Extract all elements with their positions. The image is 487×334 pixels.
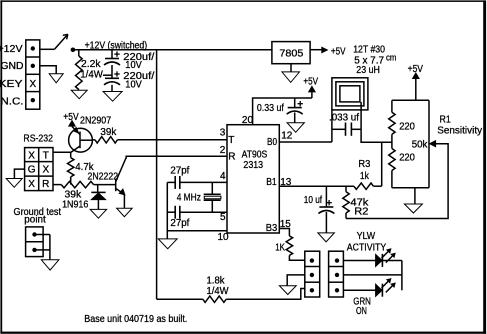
svg-text:23 uH: 23 uH [356,65,380,76]
wire J2 pin2 to ground [287,275,305,286]
label 50k [412,140,429,151]
ground (J2 pin2) [279,286,296,295]
pin label B3 [266,223,278,234]
transistor Q2 2N2222 [116,158,127,195]
svg-text:B0: B0 [267,137,277,148]
svg-text:10: 10 [218,232,230,243]
label 27pf upper [170,166,189,177]
resistor 2.2k [76,56,83,90]
label KEY [0,79,23,90]
resistor 1K (pin15) [286,236,292,256]
svg-text:X: X [28,150,35,161]
P1 pin 3 KEY mark [29,79,36,90]
+5V arrow (Q1 emitter) [69,121,75,127]
svg-text:2: 2 [220,145,226,156]
label +5V (VCC net) [303,77,318,88]
wire U1 pin12 B0 line [279,141,332,143]
pin label B0 [267,137,277,148]
capacitor 220uf upper [104,51,120,65]
ground (RS-232 G) [6,179,22,188]
pin number 12 [281,131,293,142]
J3 pin 3 dot [335,288,339,292]
wire +12V drop to bottom rail [156,50,158,300]
label +5V (Q1) [63,112,79,123]
svg-text:7805: 7805 [279,49,303,60]
caption Base unit 040719 as built. [84,314,187,325]
ground (D1) [90,209,107,218]
label 1N916 [62,200,89,211]
label AT90S [242,149,268,160]
svg-text:0.33 uf: 0.33 uf [257,103,284,114]
pin number 10 [218,232,230,243]
label R2 [354,207,369,218]
label 220 lower [399,153,415,164]
+5V arrow (VCC net) [309,86,315,98]
label 10V upper [125,60,142,71]
RS-232 cell X [28,150,35,161]
wire xtal rail [166,182,168,239]
label cm [386,53,396,63]
pin number 13 [280,177,292,188]
svg-text:+5V: +5V [408,64,424,75]
label 7805 [279,49,303,60]
svg-text:27pf: 27pf [170,218,189,229]
wire U1 pin10 to ground rail [167,230,227,232]
label 4 MHz [177,193,201,204]
wire Q2 emitter to ground [123,195,125,209]
RS-232 cell X [42,164,49,175]
label +5V (R1) [408,64,424,75]
label R3 [358,159,370,170]
wire antenna right lead [360,102,362,129]
LED D3 green [376,284,383,297]
wire LED rail [401,261,403,291]
J2 pin 1 dot [310,258,314,262]
wire 7805 output arrow [310,47,327,52]
wire C 220uf to ground [111,85,113,92]
capacitor .033uf [332,123,361,136]
pot wiper arrow [430,141,436,147]
label 1k (R3) [360,171,370,182]
svg-text:B3: B3 [266,223,278,234]
pin number 4 [220,171,226,182]
svg-text:KEY: KEY [0,79,23,90]
J3 pin 2 dot [335,273,339,277]
svg-text:+5V: +5V [303,77,318,88]
capacitor 10uf [318,186,334,233]
RS-232 cell T [43,150,49,161]
wire VCC to pin 20 [253,98,312,125]
pin number 5 [220,212,226,223]
pin number 20 [242,115,254,126]
svg-text:1N916: 1N916 [62,200,89,211]
label 220 upper [399,122,415,133]
inductor L1 loop antenna [332,78,368,110]
label .033 uf [329,112,359,123]
ground (10uf) [318,233,335,242]
junction dot +12V switched node [71,48,76,53]
wire between 220uf caps [111,65,113,78]
wire test pins to ground [35,235,50,260]
label 2313 [243,160,263,171]
J2 pin 3 dot [310,288,314,292]
wire RS-232 T to node [53,151,71,153]
label Sensitivity [437,126,482,137]
svg-text:12T #30: 12T #30 [353,45,385,56]
wire U1 pin13 B1 line [279,185,354,187]
svg-text:X: X [29,79,36,90]
svg-text:R: R [228,151,235,162]
connector J2 (3 pin) [305,251,320,297]
svg-text:27pf: 27pf [170,166,189,177]
wire R 2.2k to ground [78,90,80,91]
label ACTIVITY [347,242,387,253]
ground (0.33uf) [287,123,304,133]
label 2N2222 [88,172,119,183]
ground (P1 GND) [49,74,63,83]
pin label R [228,151,235,162]
J2 pin 2 dot [310,273,314,277]
svg-text:R: R [42,179,49,190]
label 220uf/ upper [123,52,154,63]
wire 1K to connector J2 [289,255,304,260]
label 47k (R2) [350,197,369,208]
label 220uf/ lower [123,71,154,82]
label +5V at 7805 output [331,46,346,57]
resistor 4.7k [68,152,74,184]
diode D1 1N916 [91,185,105,210]
capacitor 220uf lower [104,71,120,85]
svg-text:3: 3 [220,128,226,139]
label 2.2k [81,59,102,70]
label 39k (Q1 base) [100,127,117,138]
svg-text:N.C.: N.C. [1,96,24,107]
wire antenna left lead [331,110,333,142]
label 12T #30 [353,45,385,56]
label +12V [0,44,23,55]
svg-text:G: G [28,164,36,175]
LED D3 light arrows [382,279,396,293]
svg-text:12: 12 [281,131,293,142]
pin number 2 [220,145,226,156]
wire divider left rail upper [391,100,393,112]
svg-text:39k: 39k [100,127,117,138]
wire bottom rail right segment [226,289,305,300]
label 1K [275,242,285,253]
svg-text:1K: 1K [275,242,285,253]
svg-text:Sensitivity: Sensitivity [437,126,482,137]
svg-text:5: 5 [220,212,226,223]
resistor 39k (Q1 base) [95,137,117,143]
wire P1 GND to ground [40,66,56,74]
wire R39k to U1 pin3 [117,139,227,141]
wire R3 to tank node [373,185,381,187]
svg-text:B1: B1 [266,177,277,188]
ground (220uf caps) [103,92,122,102]
wire stub left of caps [103,74,112,76]
regulator U2 7805 box [272,42,310,64]
svg-text:Base unit 040719 as built.: Base unit 040719 as built. [84,314,187,325]
wire 7805 to ground [290,64,292,72]
wire J3 pin2 to rail [343,274,402,276]
potentiometer R1 50k track [428,100,430,188]
svg-text:ON: ON [356,306,367,317]
wire divider bottom [392,187,429,189]
transistor Q1 2N2907 [69,126,93,152]
resistor 39k (Q2 base) [61,181,93,187]
P1 pin 1 contact dot [31,46,35,50]
capacitor 27pf lower [167,206,227,219]
wire R2 to wiper rail [346,144,448,219]
resistor 220 upper [389,112,395,134]
LED D2 yellow [376,254,383,267]
label GRN [353,297,371,308]
resistor 1.8k [203,296,226,302]
ground test pin 2 dot [32,248,36,252]
P1 pin 4 contact dot [31,98,35,102]
label YLW [357,231,376,242]
pin label T [228,135,234,146]
wire tank node down to R3 [381,142,383,186]
label 5 x 7.7 [354,56,384,67]
wire rail to R 2.2k [78,50,80,56]
svg-text:ACTIVITY: ACTIVITY [347,242,387,253]
label point [24,215,46,226]
svg-text:X: X [42,164,49,175]
crystal Y1 4MHz [204,182,221,212]
connector J3 (3 pin) [329,251,344,297]
svg-text:220: 220 [399,122,415,133]
svg-text:4 MHz: 4 MHz [177,193,201,204]
svg-text:GND: GND [1,61,24,72]
ground (test point) [41,260,59,270]
svg-text:YLW: YLW [357,231,376,242]
svg-text:AT90S: AT90S [242,149,268,160]
svg-text:1k: 1k [360,171,370,182]
label R1 [440,114,452,125]
label 1/4W [80,70,103,81]
wire bottom rail left segment [157,298,203,300]
wire divider left rail lower [391,171,393,188]
wire tank to divider midpoint [361,129,392,142]
svg-text:R2: R2 [354,207,369,218]
label GND [1,61,24,72]
svg-text:10 uf: 10 uf [304,195,322,206]
wire rail to C 220uf [111,50,113,59]
ground (R1 divider) [404,204,422,213]
svg-text:1/4W: 1/4W [207,286,230,297]
wire +12V rail to 7805 [73,49,272,51]
svg-text:R3: R3 [358,159,370,170]
svg-text:10V: 10V [125,60,142,71]
svg-text:.033 uf: .033 uf [329,112,359,123]
svg-text:1.8k: 1.8k [207,275,226,286]
wire J3 pin3 to LED2 [343,289,375,291]
svg-text:cm: cm [386,53,396,63]
pin number 3 [220,128,226,139]
label 39k (Q2 base) [65,190,83,201]
RS-232 cell R [42,179,49,190]
connector P1 (power input header) [26,40,40,109]
switch S1 blade [55,34,68,49]
ground (7805) [282,72,300,83]
svg-text:R1: R1 [440,114,452,125]
label Ground test [14,207,62,218]
capacitor 27pf upper [167,176,227,189]
label 23 uH [356,65,380,76]
wire divider to ground [414,188,416,204]
connector ground test point [26,227,43,257]
svg-text:10V: 10V [125,80,142,91]
ground (2.2k) [71,90,87,99]
svg-text:4: 4 [220,171,226,182]
wire P1 pin1 to switch [40,48,55,50]
label 1/4W (1.8k) [207,286,230,297]
wire RS-232 R to R39k [53,184,61,186]
RS-232 cell X [28,179,35,190]
svg-text:50k: 50k [412,140,429,151]
label N.C. [1,96,24,107]
svg-text:220: 220 [399,153,415,164]
ground (Q2 emitter) [117,208,132,217]
svg-text:1/4W: 1/4W [80,70,103,81]
svg-text:2N2907: 2N2907 [80,115,112,126]
wire divider top [392,99,429,101]
label 2N2907 [80,115,112,126]
wire RS-232 G to ground [14,169,24,178]
label 27pf lower [170,218,189,229]
svg-text:+12V: +12V [0,44,23,55]
wire LED1 to rail [382,260,402,262]
resistor R3 1k [354,183,374,189]
wire U1 pin2 to Q2 collector [126,156,227,158]
label ON [356,306,367,317]
wire U1 pin15 stub [279,229,289,236]
pin number 15 [280,219,292,230]
label 10 uf [304,195,322,206]
label RS-232 [23,134,53,145]
J3 pin 1 dot [335,258,339,262]
RS-232 cell G [28,164,36,175]
ground test pin 1 dot [32,232,36,236]
connector RS-232 header [25,148,53,191]
label 4.7k [75,162,94,173]
svg-text:RS-232: RS-232 [23,134,53,145]
label 10V lower [125,80,142,91]
label +12V (switched) [85,40,148,51]
LED D2 light arrows [382,249,396,263]
capacitor 0.33uf [287,98,303,123]
op-amp U1 AT90S2313 body [227,125,279,233]
svg-text:+5V: +5V [331,46,346,57]
label 1.8k [207,275,226,286]
svg-text:+5V: +5V [63,112,79,123]
svg-text:2313: 2313 [243,160,263,171]
label 0.33 uf [257,103,284,114]
svg-text:point: point [24,215,46,226]
wire Q1 base to R39k [92,139,95,141]
wire J3 pin1 to LED1 [343,260,375,262]
ground (xtal) [158,239,177,249]
resistor R2 47k [343,186,349,218]
svg-text:2N2222: 2N2222 [88,172,119,183]
svg-text:T: T [228,135,234,146]
wire divider mid [391,134,393,148]
P1 pin 2 contact dot [31,64,35,68]
+5V arrow (R1) [413,73,419,100]
pin label B1 [266,177,277,188]
svg-text:T: T [43,150,49,161]
wire R39k to Q2 base [94,184,116,186]
svg-text:X: X [28,179,35,190]
resistor 220 lower [389,149,395,171]
